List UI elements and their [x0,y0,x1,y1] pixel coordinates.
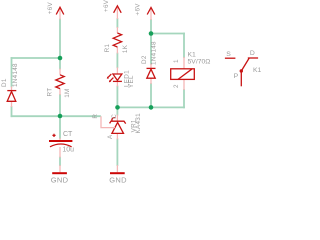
supply +6V arrow 2 [114,6,122,13]
capacitor CT [49,140,72,142]
junction node RT/CT [58,114,63,119]
pin +6V arrow2 stem [116,6,118,19]
pin K1 coil 1 [183,57,185,69]
relay contact K1 [225,57,236,59]
svg-text:5V/70Ω: 5V/70Ω [188,59,211,66]
resistor RT [56,75,64,89]
pin VR1 cathode [116,115,118,121]
svg-text:1N4148: 1N4148 [12,63,19,87]
supply +6V arrow 3 [147,8,155,15]
pin D1 top [11,87,13,91]
junction node RT top [58,56,63,61]
wire top-left horizontal D1 to RT column [12,57,61,59]
pin R1 bottom [116,47,118,54]
wire R1 column upper [116,19,118,27]
svg-text:1N4148: 1N4148 [150,41,157,65]
svg-text:K1: K1 [253,67,262,74]
svg-text:+6V: +6V [135,3,142,16]
wire CT bottom to GND [59,158,61,166]
svg-text:KA431: KA431 [135,113,142,134]
VR1 R pin [101,116,115,127]
diode D2 [147,67,156,69]
relay coil K1 [171,69,195,80]
svg-text:R: R [92,114,99,119]
svg-text:D: D [250,50,255,57]
svg-text:R1: R1 [104,44,111,53]
svg-text:GND: GND [109,175,127,184]
pin CT bottom [59,147,61,158]
pin D1 bottom [11,102,13,108]
svg-text:1M: 1M [64,88,71,97]
svg-text:A: A [107,134,114,139]
wire RT column vertical lower to CT [59,95,61,138]
wire top-right horizontal D2 to K1 [151,33,184,35]
svg-text:P: P [234,73,239,80]
wire D2 column upper [150,20,152,64]
pin D2 top [150,64,152,68]
junction node D2 top [149,31,154,36]
junction node VR1 cathode [115,105,120,110]
junction node D2 bottom [149,105,154,110]
svg-text:1K: 1K [122,44,129,53]
LED1 emission arrows [108,74,111,77]
wire LED1 to VR1 junction [116,87,118,115]
svg-text:RT: RT [46,88,53,97]
diode D1 [7,90,16,92]
wire D2 bottom [150,84,152,107]
pin GND2 [116,165,118,172]
wire K1 column upper [183,34,185,58]
wire K1 column lower [183,90,185,107]
resistor R1 [113,33,121,47]
pin LED1 bottom [116,82,118,87]
pin VR1 anode [116,134,118,140]
svg-text:1: 1 [173,59,180,63]
wire VR1 anode to GND [116,139,118,165]
ground GND2 [110,172,125,174]
pin K1 coil 2 [183,79,185,90]
wire R1 to LED1 [116,54,118,68]
pin CT top [59,138,61,140]
wire D1 top vertical [11,58,13,87]
pin LED1 top [116,67,118,73]
svg-text:S: S [226,51,231,58]
svg-text:+6V: +6V [103,0,110,12]
LED LED1 [113,74,122,80]
svg-text:2: 2 [173,84,180,88]
svg-text:D1: D1 [1,78,8,87]
ground GND1 [52,172,67,174]
svg-text:C: C [111,114,118,119]
pin GND1 [59,165,61,172]
CT plus sign [52,134,55,137]
svg-text:D2: D2 [141,55,148,64]
supply +6V arrow 1 [56,7,64,14]
pin D2 bottom [150,79,152,84]
wire D1 bottom to horizontal [11,107,13,116]
wire bottom horizontal VR1 to K1 [118,106,185,108]
pin +6V arrow1 stem [59,8,61,20]
svg-text:CT: CT [63,131,73,138]
pin R1 top [116,27,118,33]
pin RT top [59,69,61,75]
pin +6V arrow3 stem [150,8,152,20]
wire horizontal D1 to VR1 R pin [12,115,101,117]
svg-text:YEL: YEL [128,75,135,88]
svg-text:10u: 10u [62,146,74,153]
wire RT column vertical upper [59,20,61,69]
svg-text:K1: K1 [188,52,197,59]
shunt regulator VR1 KA431 [110,121,126,123]
svg-text:GND: GND [51,175,69,184]
pin RT bottom [59,89,61,95]
svg-text:+6V: +6V [47,2,54,15]
